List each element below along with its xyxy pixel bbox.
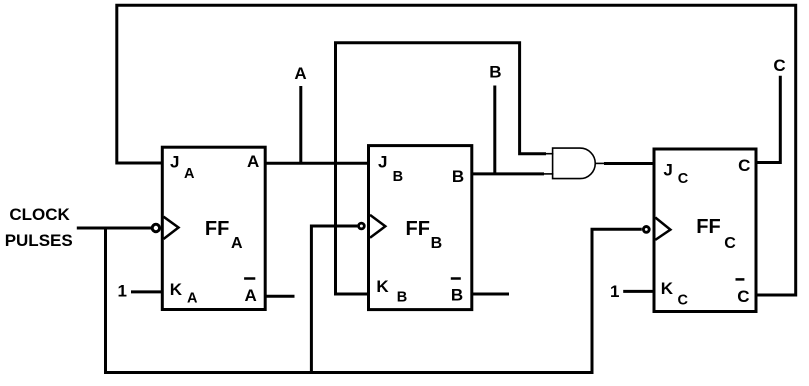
svg-text:J: J xyxy=(663,161,672,180)
svg-text:J: J xyxy=(378,153,387,172)
svg-text:B: B xyxy=(452,167,464,186)
svg-text:K: K xyxy=(170,280,183,299)
svg-text:A: A xyxy=(231,235,243,252)
svg-text:B: B xyxy=(489,63,501,82)
svg-text:B: B xyxy=(431,235,443,252)
svg-text:C: C xyxy=(738,156,750,175)
svg-text:C: C xyxy=(773,56,785,75)
svg-text:J: J xyxy=(170,153,179,172)
svg-text:B: B xyxy=(451,285,463,304)
svg-text:A: A xyxy=(184,166,195,182)
svg-text:1: 1 xyxy=(610,282,619,301)
svg-text:B: B xyxy=(397,289,407,305)
svg-text:FF: FF xyxy=(406,218,430,240)
svg-text:C: C xyxy=(678,171,689,187)
svg-text:1: 1 xyxy=(118,282,127,301)
svg-text:K: K xyxy=(376,277,389,296)
svg-text:C: C xyxy=(724,235,736,252)
svg-text:A: A xyxy=(294,64,306,83)
svg-text:C: C xyxy=(678,293,689,309)
svg-text:CLOCK: CLOCK xyxy=(9,205,70,224)
svg-text:K: K xyxy=(661,279,674,298)
svg-text:FF: FF xyxy=(696,216,720,238)
svg-text:FF: FF xyxy=(205,218,229,240)
svg-text:A: A xyxy=(247,152,259,171)
svg-text:PULSES: PULSES xyxy=(5,231,73,250)
svg-text:C: C xyxy=(737,287,749,306)
svg-text:A: A xyxy=(245,286,257,305)
svg-text:B: B xyxy=(393,169,403,185)
svg-text:A: A xyxy=(187,291,198,307)
